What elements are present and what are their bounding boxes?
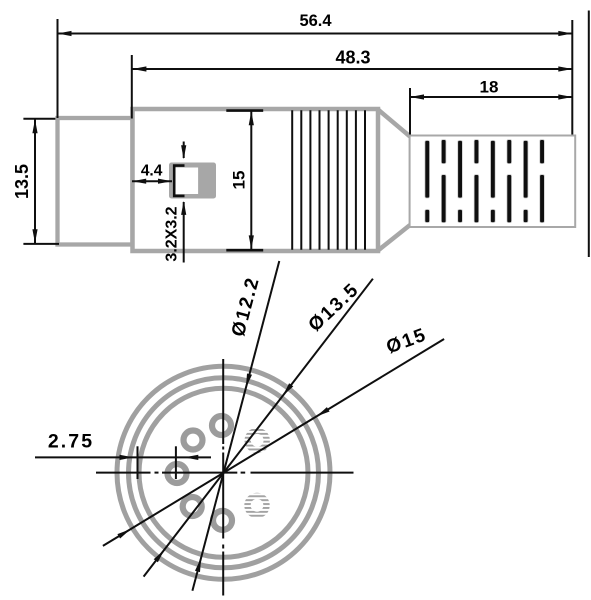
grip ribs on body: [292, 110, 365, 249]
dimension 13.5: [23, 119, 59, 244]
svg-text:18: 18: [480, 78, 499, 97]
cable strain relief outline: [410, 136, 576, 228]
svg-text:4.4: 4.4: [141, 163, 163, 180]
pin left: [168, 464, 187, 483]
svg-text:56.4: 56.4: [299, 12, 332, 30]
svg-text:48.3: 48.3: [335, 48, 370, 68]
dimension 48.3: [132, 55, 573, 119]
svg-text:15: 15: [229, 171, 248, 190]
dimension 4.4: [132, 180, 172, 182]
front view: middle circle Ø13.5: [129, 378, 319, 568]
tapered neck between body and strain relief: [378, 110, 410, 251]
strain relief slot pattern: [425, 140, 544, 223]
thin neck edge line: [409, 137, 411, 225]
front view: inner circle Ø12.2: [139, 388, 308, 557]
diameter leader Ø13.5: [144, 279, 373, 577]
svg-text:3.2X3.2: 3.2X3.2: [164, 206, 181, 261]
front view: outer circle Ø15: [117, 366, 330, 579]
diameter leader Ø15: [103, 339, 444, 546]
dimension 3.2X3.2: [183, 142, 185, 263]
dimension 18: [410, 88, 572, 135]
pin upper-left: [184, 431, 203, 450]
latch window on body: [169, 163, 216, 199]
pin lower-left: [183, 497, 202, 516]
plug main body (side view): [133, 109, 379, 251]
metal shield barrel (left sleeve of plug, side view): [58, 118, 133, 245]
dimension 56.4: [58, 19, 573, 135]
hatched pin lower-right: [244, 493, 269, 518]
diameter leader Ø12.2: [192, 261, 279, 591]
pin top: [212, 416, 231, 435]
dimension 2.75: [35, 456, 211, 458]
svg-text:2.75: 2.75: [48, 431, 94, 453]
svg-text:13.5: 13.5: [12, 164, 32, 199]
vertical centerline: [222, 359, 224, 596]
horizontal centerline: [96, 472, 354, 474]
dimension 15: [226, 111, 263, 251]
drawing border line right edge: [588, 11, 590, 258]
pin bottom: [213, 511, 232, 530]
